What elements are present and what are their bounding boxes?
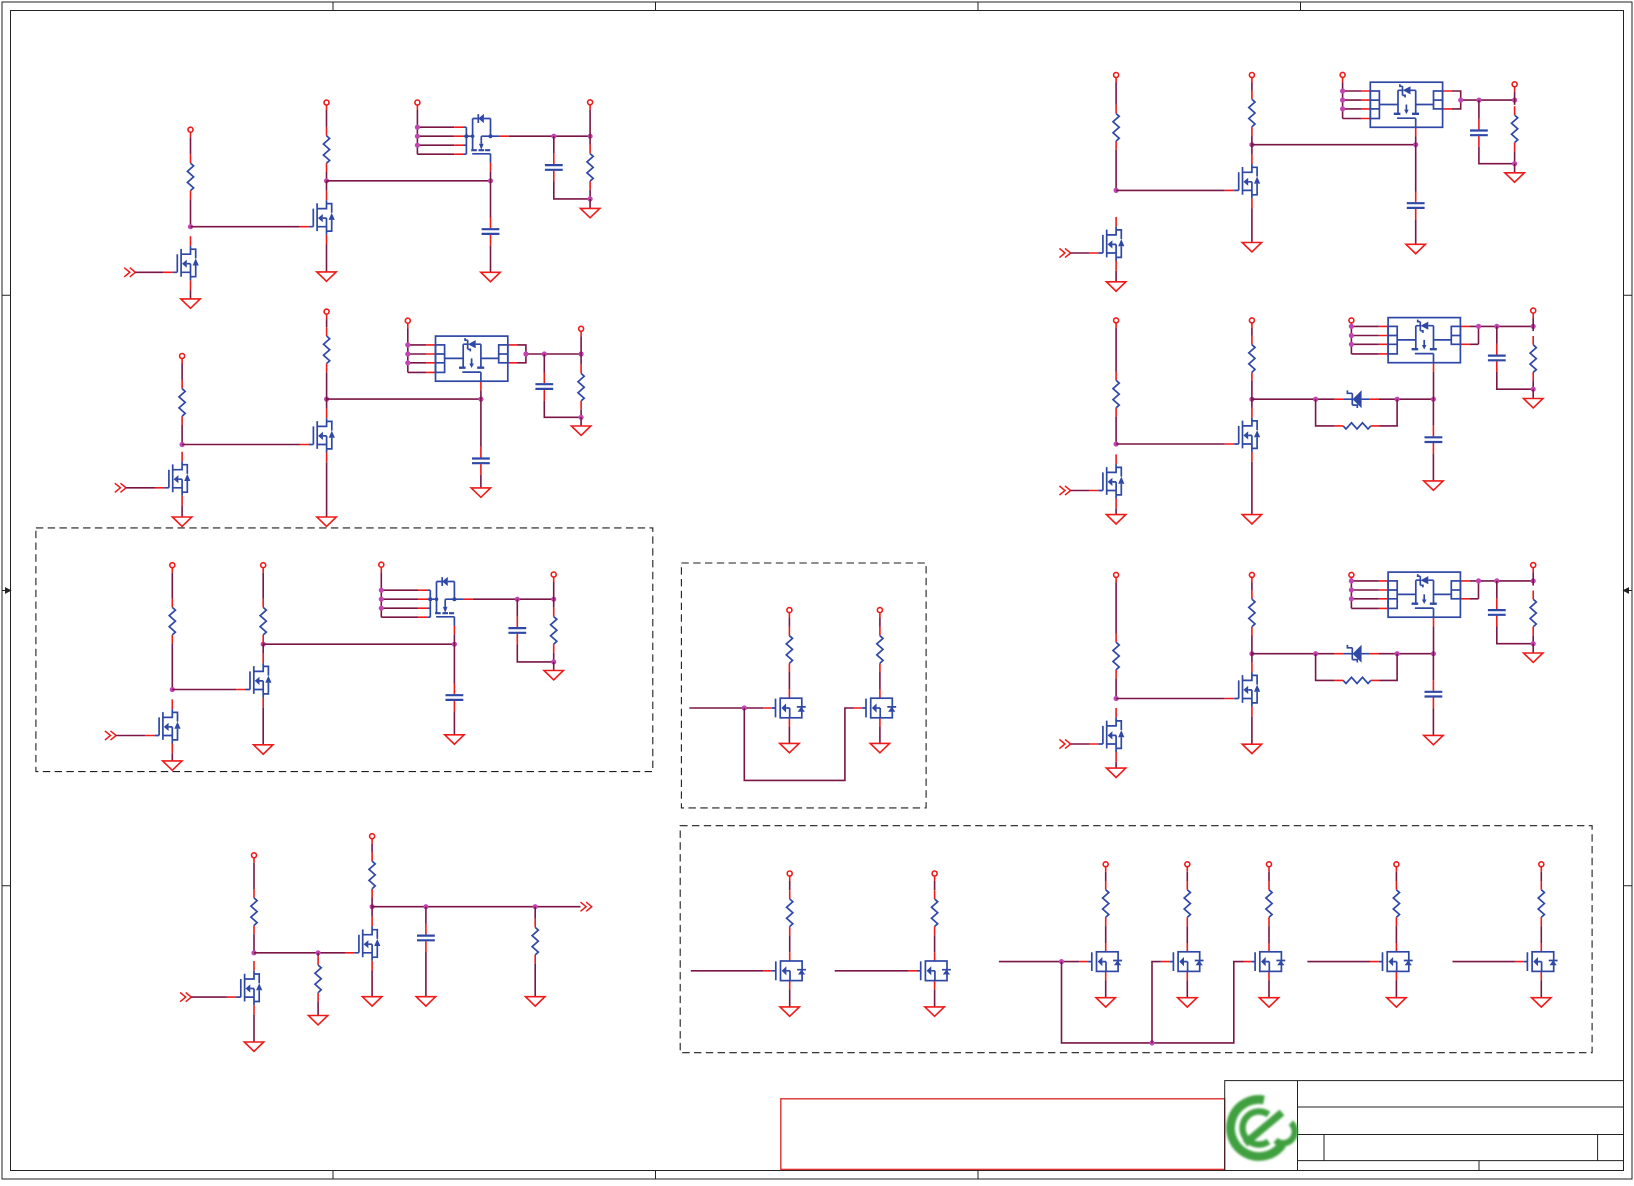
ground <box>1242 515 1261 524</box>
wire red stub zener left <box>1334 653 1343 655</box>
ground <box>1242 744 1261 753</box>
ground <box>1424 481 1443 490</box>
diode H-Dz zener <box>1343 390 1370 408</box>
wire <box>480 399 482 447</box>
wire <box>1105 926 1107 943</box>
wire <box>262 644 264 653</box>
wire <box>371 907 373 917</box>
wire gate Q9 <box>254 952 345 954</box>
wire <box>1115 83 1117 105</box>
node E5 junction <box>533 904 538 909</box>
wire <box>190 290 192 299</box>
node B5 junction <box>542 351 547 356</box>
wire gate U4 <box>1415 137 1417 145</box>
wire <box>589 136 591 145</box>
resistor I-Rc parallel <box>1334 677 1379 683</box>
wire <box>554 182 590 199</box>
wire <box>326 181 328 191</box>
wire <box>544 401 581 418</box>
wire red stub zener right <box>1370 398 1379 400</box>
ground <box>870 743 889 752</box>
wire parallel loop <box>1316 654 1398 681</box>
port EN3 input <box>105 731 116 740</box>
node G-VOUT pin <box>1512 82 1517 92</box>
wire <box>589 199 591 209</box>
wire <box>1186 926 1188 943</box>
wire <box>589 110 591 136</box>
node C-VIN2 pin <box>261 563 266 573</box>
node junction <box>1249 397 1254 402</box>
wire bundle bus <box>408 345 426 373</box>
wire <box>1540 926 1542 943</box>
transistor Q7 <box>763 689 806 726</box>
ground <box>1259 998 1278 1007</box>
ground <box>163 761 182 770</box>
ground <box>925 1007 944 1016</box>
transistor Q6 <box>145 699 180 753</box>
resistor R10 <box>786 627 792 672</box>
transistor Q4 <box>155 452 190 506</box>
wire <box>934 935 936 952</box>
wire <box>1532 581 1534 586</box>
wire <box>326 462 328 517</box>
wire <box>326 172 328 181</box>
node junction <box>1431 651 1436 656</box>
wire <box>1251 328 1253 336</box>
transistor Q15 <box>1243 943 1286 980</box>
wire <box>1350 325 1352 327</box>
wire <box>262 573 264 599</box>
port EN6 input <box>1059 248 1070 257</box>
ground <box>445 735 464 744</box>
wire output <box>473 598 554 600</box>
ground <box>580 208 599 217</box>
transistor H-Qa <box>1225 408 1260 462</box>
node junction <box>1531 641 1536 646</box>
node D-V1 pin <box>787 608 792 618</box>
node A3 junction <box>488 178 493 183</box>
node G-VIN2 pin <box>1249 73 1254 83</box>
wire <box>1540 872 1542 881</box>
wire <box>453 644 455 683</box>
node F-V4 pin <box>1185 862 1190 872</box>
ground <box>254 745 273 754</box>
node C2 junction <box>261 642 266 647</box>
node A5 junction <box>588 134 593 139</box>
transistor Q14 <box>1161 943 1204 980</box>
node C3 junction <box>452 642 457 647</box>
wire <box>788 672 790 689</box>
resistor R21 <box>1393 881 1399 926</box>
wire <box>1251 208 1253 242</box>
wire gate <box>1116 443 1225 445</box>
ground <box>1178 998 1197 1007</box>
node E1 junction <box>251 950 256 955</box>
wire <box>1479 147 1515 164</box>
resistor R2 <box>323 127 329 172</box>
node A1 junction <box>188 224 193 229</box>
border center arrow right <box>1624 588 1633 593</box>
wire <box>1532 318 1534 326</box>
resistor I-Rb <box>1249 590 1255 635</box>
wire <box>1115 417 1117 444</box>
port OUT output <box>581 902 592 911</box>
ground <box>181 299 200 308</box>
wire bundle bus <box>1351 581 1378 609</box>
wire output bracket <box>1452 91 1515 109</box>
node junction <box>1313 651 1318 656</box>
wire <box>1251 654 1253 663</box>
wire <box>116 735 145 737</box>
wire <box>1268 872 1270 881</box>
node G-VIN1 pin <box>1114 73 1119 83</box>
wire <box>1350 579 1352 581</box>
transistor H-Qb <box>1089 454 1124 508</box>
wire <box>589 190 591 199</box>
wire <box>580 417 582 426</box>
wire <box>1395 926 1397 943</box>
wire <box>1532 636 1534 644</box>
wire <box>1251 716 1253 744</box>
transistor I-U module <box>1379 572 1470 626</box>
ground <box>172 517 191 526</box>
transistor Q11 <box>763 952 806 989</box>
wire output bracket <box>1470 581 1534 599</box>
transistor U3 PMOS <box>418 577 473 634</box>
ground <box>571 426 590 435</box>
wire <box>1497 372 1533 389</box>
node G6 junction <box>1512 98 1517 103</box>
wire <box>517 645 553 662</box>
wire <box>171 644 173 690</box>
wire <box>190 199 192 226</box>
wire <box>371 898 373 907</box>
wire <box>879 618 881 627</box>
wire <box>1251 145 1253 155</box>
transistor Q12 <box>908 952 951 989</box>
resistor R6 <box>578 365 584 410</box>
border row ticks left <box>2 295 11 886</box>
wire <box>371 971 373 997</box>
node E2 junction <box>316 950 321 955</box>
wire <box>1115 508 1117 514</box>
wire <box>1395 872 1397 881</box>
ground <box>471 488 490 497</box>
wire <box>380 572 382 590</box>
transistor Q17 <box>1515 943 1558 980</box>
ground <box>544 671 563 680</box>
node junction <box>1114 696 1119 701</box>
resistor R14 <box>369 852 375 897</box>
node C-VIN1 pin <box>170 563 175 573</box>
wire <box>1251 582 1253 590</box>
node junction <box>1313 397 1318 402</box>
wire <box>135 271 163 273</box>
resistor R19 <box>1184 881 1190 926</box>
wire <box>181 506 183 517</box>
wire <box>934 989 936 1007</box>
wire <box>416 110 418 127</box>
node B6 junction <box>579 351 584 356</box>
node junction <box>1494 324 1499 329</box>
resistor R16 <box>787 890 793 935</box>
wire <box>490 246 492 273</box>
wire <box>788 618 790 627</box>
capacitor H-Cb <box>1488 344 1506 372</box>
border column ticks bottom <box>333 1171 978 1180</box>
wire <box>490 181 492 218</box>
wire <box>1251 399 1253 408</box>
node D1 junction <box>742 705 747 710</box>
wire <box>480 475 482 488</box>
resistor R18 <box>1103 881 1109 926</box>
wire <box>181 425 183 445</box>
wire <box>126 487 155 489</box>
wire <box>371 844 373 853</box>
wire <box>534 964 536 997</box>
wire output row <box>372 906 580 908</box>
ground <box>1524 653 1543 662</box>
transistor Q16 <box>1370 943 1413 980</box>
wire <box>789 989 791 1007</box>
wire <box>326 245 328 272</box>
red annotation box <box>781 1099 1225 1170</box>
transistor I-Qb <box>1089 708 1124 762</box>
node C5 junction <box>551 597 556 602</box>
wire <box>425 907 427 924</box>
ground <box>244 1042 263 1051</box>
wire <box>1379 653 1433 655</box>
node junction <box>1114 441 1119 446</box>
wire <box>253 863 255 889</box>
ground <box>1406 244 1425 253</box>
transistor I-Qa <box>1225 662 1260 716</box>
wire gate U1 <box>490 171 492 181</box>
wire <box>1115 271 1117 282</box>
resistor R17 <box>932 890 938 935</box>
title block frame <box>1225 1081 1624 1171</box>
wire <box>543 354 545 373</box>
resistor R20 <box>1266 881 1272 926</box>
node B-VIN3 pin <box>405 318 410 328</box>
wire gate Q5 <box>172 689 236 691</box>
node E3 junction <box>370 904 375 909</box>
wire <box>1115 582 1117 633</box>
node junction <box>1476 324 1481 329</box>
node E4 junction <box>423 904 428 909</box>
wire <box>190 137 192 154</box>
node F2 junction <box>1149 1040 1154 1045</box>
node H-H-VIN3 pin <box>1349 318 1354 325</box>
wire <box>1395 980 1397 998</box>
ground <box>1387 998 1406 1007</box>
node G5 junction <box>1476 98 1481 103</box>
wire gate <box>1116 698 1225 700</box>
transistor H-U module <box>1379 318 1470 372</box>
wire gate Q1 <box>191 226 300 228</box>
node C1 junction <box>170 687 175 692</box>
dashed box region D <box>681 563 926 808</box>
wire <box>879 672 881 689</box>
transistor U4 module <box>1361 82 1452 136</box>
wire <box>1115 679 1117 699</box>
node I-H-VIN1 pin <box>1114 572 1119 582</box>
node B2 junction <box>324 397 329 402</box>
port EN input <box>1059 486 1070 495</box>
capacitor C8 <box>1407 192 1425 220</box>
capacitor I-Cb <box>1488 598 1506 626</box>
wire gate module <box>1433 626 1435 653</box>
wire bundle bus <box>417 127 454 154</box>
node G1 junction <box>1114 188 1119 193</box>
ground <box>1106 515 1125 524</box>
ground <box>780 1007 799 1016</box>
wire <box>1514 100 1516 105</box>
capacitor C7 <box>417 924 435 952</box>
wire <box>262 707 264 745</box>
ground <box>780 743 799 752</box>
node A-VIN3 pin <box>415 100 420 110</box>
capacitor H-Ca <box>1425 426 1443 454</box>
node bundle junctions <box>405 342 410 347</box>
node H-H-VIN2 pin <box>1249 318 1254 328</box>
wire <box>553 653 555 662</box>
node A-VOUT pin <box>588 100 593 110</box>
node D-V2 pin <box>877 608 882 618</box>
wire gate U2 <box>480 390 482 399</box>
resistor R7 <box>169 599 175 644</box>
border row ticks right <box>1624 295 1633 886</box>
wire <box>191 996 227 998</box>
capacitor C3 <box>472 447 490 475</box>
resistor R9 <box>551 608 557 653</box>
wire gate Q14 riser <box>1152 962 1161 1043</box>
node junction <box>1249 651 1254 656</box>
node A-VIN1 pin <box>188 127 193 137</box>
node B7 junction <box>579 415 584 420</box>
wire <box>1268 980 1270 998</box>
resistor R23 <box>1113 105 1119 150</box>
capacitor C4 <box>535 373 553 401</box>
resistor R12 <box>251 889 257 934</box>
wire <box>1432 654 1434 680</box>
node B3 junction <box>478 397 483 402</box>
resistor R4 <box>179 380 185 425</box>
resistor I-Rd <box>1530 591 1536 636</box>
wire output bracket <box>517 345 581 363</box>
resistor H-Rb <box>1249 336 1255 381</box>
wire <box>317 1001 319 1015</box>
node F-V1 pin <box>787 871 792 881</box>
node junction <box>1395 651 1400 656</box>
wire <box>1071 490 1089 492</box>
wire <box>181 364 183 380</box>
wire bundle bus <box>1343 91 1361 119</box>
node F1 junction <box>1059 959 1064 964</box>
wire <box>1251 462 1253 515</box>
wire <box>1071 743 1089 745</box>
wire <box>1186 872 1188 881</box>
wire <box>1514 151 1516 163</box>
wire red stub zener right <box>1370 653 1379 655</box>
ground <box>362 997 381 1006</box>
wire <box>1432 399 1434 425</box>
port EN5 input <box>180 993 191 1002</box>
diode I-Dz zener <box>1343 645 1370 663</box>
dashed box region F <box>680 826 1592 1053</box>
ground <box>1424 735 1443 744</box>
resistor H-Rd <box>1530 336 1536 381</box>
wire <box>326 372 328 399</box>
node B4 junction <box>523 351 528 356</box>
transistor Q9 <box>345 917 380 971</box>
node G2 junction <box>1249 142 1254 147</box>
wire <box>326 319 328 327</box>
wire zener row <box>1252 398 1335 400</box>
capacitor C1 <box>482 218 500 246</box>
wire gate Q17 <box>1453 961 1515 963</box>
wire <box>1251 83 1253 91</box>
wire <box>879 727 881 744</box>
node E-VIN2 pin <box>370 834 375 844</box>
node B-VIN2 pin <box>324 309 329 319</box>
node junction <box>1531 578 1536 583</box>
ground <box>526 997 545 1006</box>
resistor R11 <box>877 627 883 672</box>
wire bundle bus <box>381 590 418 617</box>
wire <box>553 582 555 599</box>
wire <box>1105 872 1107 881</box>
node junction <box>1494 578 1499 583</box>
wire <box>553 662 555 671</box>
wire <box>1115 328 1117 372</box>
node I-H-VIN2 pin <box>1249 572 1254 582</box>
resistor R13 <box>315 956 321 1001</box>
node G3 junction <box>1413 142 1418 147</box>
node A2 junction <box>324 178 329 183</box>
node A4 junction <box>551 134 556 139</box>
wire <box>516 599 518 616</box>
node C6 junction <box>551 659 556 664</box>
resistor H-Rc parallel <box>1334 423 1379 429</box>
node C4 junction <box>515 597 520 602</box>
node junction <box>1395 397 1400 402</box>
wire <box>425 952 427 997</box>
transistor Q1 <box>299 191 334 245</box>
node A-VIN2 pin <box>324 100 329 110</box>
wire gate U3 <box>453 634 455 644</box>
node C-VIN3 pin <box>379 562 384 572</box>
ground <box>317 517 336 526</box>
ground <box>1106 282 1125 291</box>
transistor Q18 <box>1225 154 1260 208</box>
transistor Q10 <box>227 961 262 1015</box>
node G-VIN3 pin <box>1340 72 1345 82</box>
ground <box>1532 998 1551 1007</box>
wire <box>534 907 536 919</box>
wire <box>407 328 409 345</box>
ground <box>481 272 500 281</box>
wire gate Q11 <box>691 970 764 972</box>
wire <box>1342 82 1344 91</box>
wire <box>1251 636 1253 654</box>
transistor Q5 <box>236 653 271 707</box>
wire <box>789 935 791 952</box>
node bundle junctions <box>1349 324 1354 329</box>
wire <box>1415 220 1417 245</box>
wire <box>253 1015 255 1042</box>
transistor Q2 <box>163 236 198 290</box>
